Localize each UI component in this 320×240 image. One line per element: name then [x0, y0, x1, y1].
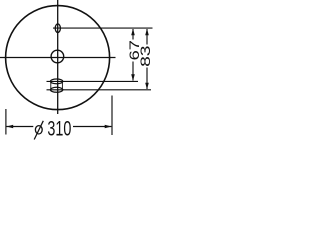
dim line 83 lower segment	[146, 68, 148, 90]
arrow down 67	[131, 74, 135, 81]
phi310 dim line left segment	[7, 126, 34, 128]
svg-text:310: 310	[47, 117, 71, 140]
phi symbol circle	[35, 126, 42, 134]
center hole circle	[51, 50, 64, 63]
phi symbol slash	[34, 121, 43, 140]
dim line 67 lower segment	[132, 62, 134, 81]
extension line upper knob	[47, 80, 139, 82]
lower knob upper ellipse	[50, 79, 62, 84]
knob side right	[61, 82, 63, 89]
arrow up 67	[131, 29, 135, 36]
extension line lower knob	[47, 89, 152, 91]
arrow down 83	[145, 83, 149, 90]
phi310 left extension line	[5, 109, 7, 135]
vertical centerline	[57, 0, 59, 114]
phi310 right extension line	[111, 96, 113, 136]
dim line 67 upper segment	[132, 29, 134, 40]
horizontal centerline	[0, 57, 116, 59]
arrow left phi310	[7, 125, 14, 129]
lower knob lower ellipse	[50, 87, 62, 92]
dim line 83 upper segment	[146, 29, 148, 45]
phi310 dim line right segment	[73, 126, 111, 128]
svg-text:83: 83	[138, 45, 154, 66]
arrow up 83	[145, 29, 149, 36]
knob side left	[50, 82, 52, 89]
fixture body circle	[6, 6, 110, 110]
top knob ellipse	[55, 24, 60, 33]
extension line from top knob	[53, 27, 153, 29]
arrow right phi310	[105, 125, 112, 129]
